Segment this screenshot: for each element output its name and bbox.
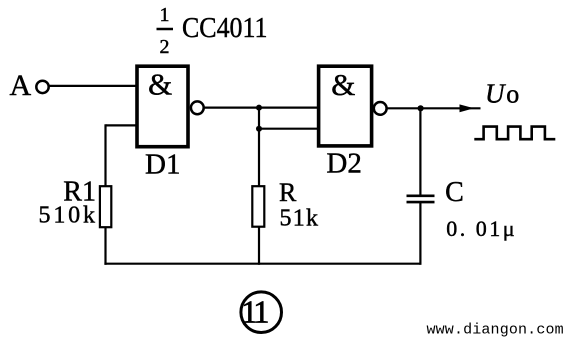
- gate D1 output bubble: [191, 101, 204, 114]
- wire node D down to capacitor C: [419, 108, 421, 196]
- svg-text:0. 01μ: 0. 01μ: [446, 216, 514, 241]
- svg-text:D1: D1: [145, 149, 180, 181]
- svg-text:1: 1: [253, 294, 269, 330]
- wire junction B down to junction C: [258, 108, 260, 129]
- svg-text:&: &: [331, 67, 355, 102]
- wire D2 output to arrow: [388, 107, 481, 109]
- nand gate D1: [137, 66, 188, 147]
- svg-text:R: R: [279, 178, 297, 207]
- capacitor C: [407, 196, 435, 202]
- svg-text:U: U: [485, 79, 506, 109]
- svg-text:D2: D2: [326, 148, 361, 180]
- wire R bottom down: [258, 227, 260, 265]
- wire capacitor bottom down: [419, 202, 421, 265]
- wire junction C down to resistor R: [258, 129, 260, 186]
- junction dot node C: [256, 126, 262, 132]
- gate D2 output bubble: [374, 102, 387, 115]
- svg-text:A: A: [10, 69, 32, 102]
- wire D1 output to D2 input 1: [204, 106, 318, 108]
- svg-text:www.diangon.com: www.diangon.com: [427, 322, 564, 339]
- nand gate D2: [319, 66, 372, 146]
- wire R1 bottom down: [104, 227, 106, 265]
- figure number 11 circled: [241, 292, 282, 333]
- svg-text:2: 2: [160, 36, 170, 58]
- resistor R: [252, 186, 264, 227]
- svg-text:&: &: [148, 67, 172, 102]
- resistor R1: [100, 186, 111, 227]
- wire A to D1 input 1: [50, 85, 138, 87]
- svg-text:1: 1: [160, 4, 170, 26]
- label 1/2 fraction: [157, 4, 174, 58]
- svg-text:C: C: [445, 177, 464, 208]
- terminal A: [36, 81, 48, 93]
- junction dot node B: [256, 105, 262, 111]
- wire ground bus bottom: [104, 263, 420, 265]
- wire junction C to D2 input 2: [259, 128, 318, 130]
- svg-text:51k: 51k: [280, 205, 319, 231]
- wire feedback vertical down to R1: [104, 124, 106, 186]
- arrowhead to output: [460, 104, 475, 112]
- svg-text:CC4011: CC4011: [182, 12, 268, 44]
- squarewave symbol: [474, 127, 555, 140]
- wire feedback to D1 input 2: [106, 124, 138, 126]
- junction dot node D: [418, 105, 424, 111]
- svg-text:o: o: [506, 80, 519, 109]
